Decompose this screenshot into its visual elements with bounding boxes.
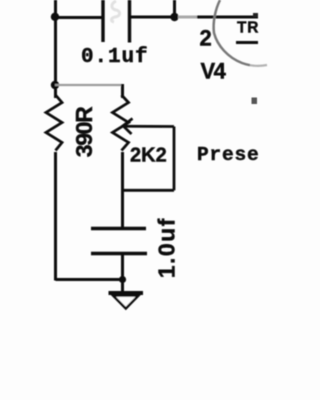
tube V4 envelope arc (partial circle) [214,0,250,65]
wire end nub on pin-2 lead [253,13,258,17]
wire: horizontal lead into capacitor C1 left plate [55,16,103,19]
wire: left vertical bus from top edge down to R1 [54,0,57,98]
wire: wiper loop bottom back to lower terminal [121,189,174,192]
capacitor C1 right plate [128,0,131,43]
wire: preset top stub [121,84,124,98]
wire: horizontal from C1 right plate to tube V4 pin 2 [130,16,259,19]
wire: wiper loop right side down [173,127,176,191]
tube V4 envelope arc faded tail [250,64,267,67]
wire: gray horizontal link from R1 top to preset top [55,84,123,86]
ghost mark: faint artifact between C1 plates [111,1,119,22]
wire: preset bottom lead down to capacitor C2 [121,152,124,229]
svg-text:2K2: 2K2 [130,145,167,167]
svg-text:Prese: Prese [197,144,260,166]
wire: bottom horizontal ground rail [56,278,123,281]
junction node: dot where ground rail meets C2 lead [119,276,126,283]
preset wiper arrow head [123,119,133,135]
wire: R1 bottom lead down to ground rail [54,152,57,281]
junction node: top-left junction dot [51,13,59,21]
resistor R1 zigzag body [46,95,62,151]
svg-text:1.0uf: 1.0uf [153,217,179,278]
wire: C2 bottom lead down to ground [121,253,124,292]
wire: wiper arrow shaft to the right [123,125,174,128]
stray mark: small gray dot right side [252,98,258,105]
svg-text:390R: 390R [71,106,97,157]
junction node: dot on pin-2 wire [170,13,178,21]
wire: faded segment of pin-2 lead [178,16,197,19]
svg-text:V4: V4 [201,59,227,84]
svg-text:TR: TR [237,20,259,37]
wire: vertical stub rising from pin-2 wire to top edge [173,0,176,17]
svg-text:0.1uf: 0.1uf [81,46,149,69]
capacitor C2 top plate [91,227,146,230]
junction node: dot at top of resistor R1 [51,81,59,89]
svg-text:2: 2 [200,26,212,51]
capacitor C2 bottom plate [91,252,147,255]
preset resistor RV zigzag body [113,95,129,151]
ground symbol [109,293,144,309]
capacitor C1 left plate [101,0,104,42]
